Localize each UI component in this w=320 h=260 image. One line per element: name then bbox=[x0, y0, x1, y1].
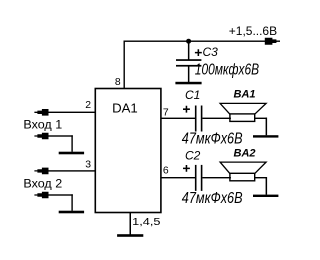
ground C3 bbox=[175, 82, 201, 85]
capacitor C2 right plate bbox=[201, 165, 203, 191]
capacitor C3 bottom plate bbox=[176, 65, 201, 67]
speaker BA1 body bbox=[230, 114, 255, 122]
wire BA1 to ground vertical bbox=[266, 118, 268, 136]
svg-text:100мкфх6В: 100мкфх6В bbox=[195, 62, 259, 79]
wire C3 bottom lead bbox=[188, 67, 190, 83]
svg-text:7: 7 bbox=[163, 107, 169, 118]
input 1 arrow terminal bbox=[34, 109, 48, 116]
input 2 arrow terminal bbox=[34, 168, 48, 175]
wire pin 3 to input 2 bbox=[48, 170, 96, 171]
svg-text:47мкФх6В: 47мкФх6В bbox=[182, 190, 243, 207]
wire pin 8 vertical bbox=[124, 41, 125, 89]
wire input 2 ground vertical bbox=[71, 194, 72, 211]
wire pin 6 to C2 bbox=[161, 177, 195, 178]
ground IC pins 1,4,5 bbox=[117, 234, 143, 237]
svg-text:BA1: BA1 bbox=[234, 89, 256, 101]
wire pin 2 to input 1 bbox=[48, 112, 96, 113]
wire input 1 ground horizontal bbox=[48, 135, 73, 136]
svg-text:DA1: DA1 bbox=[112, 101, 138, 116]
svg-text:6: 6 bbox=[163, 166, 169, 177]
wire input 1 ground vertical bbox=[71, 135, 72, 152]
svg-text:8: 8 bbox=[115, 77, 121, 88]
op-amp IC DA1 body bbox=[95, 89, 161, 213]
speaker BA1 cone bbox=[220, 103, 266, 114]
ground BA1 bbox=[253, 135, 278, 137]
svg-text:3: 3 bbox=[85, 159, 91, 170]
wire pin 7 to C1 bbox=[161, 118, 195, 119]
wire pins 1,4,5 to ground bbox=[130, 213, 132, 236]
svg-text:C2: C2 bbox=[185, 149, 201, 163]
wire power rail horizontal bbox=[124, 41, 278, 42]
wire BA2 to ground vertical bbox=[266, 177, 268, 195]
wire BA1 to ground horizontal bbox=[255, 118, 267, 119]
wire input 2 ground horizontal bbox=[48, 194, 73, 195]
capacitor C1 right plate bbox=[201, 106, 203, 132]
svg-text:2: 2 bbox=[85, 100, 91, 111]
ground input 2 bbox=[59, 211, 84, 214]
wire C2 to BA2 bbox=[202, 177, 231, 178]
capacitor C1 plus sign bbox=[183, 106, 190, 113]
input 1 ground arrow terminal bbox=[34, 133, 48, 140]
wire C3 top lead bbox=[188, 41, 190, 60]
capacitor C2 left plate bbox=[195, 165, 197, 191]
ground BA2 bbox=[253, 195, 278, 197]
capacitor C1 left plate bbox=[195, 106, 197, 132]
ground input 1 bbox=[59, 152, 84, 155]
svg-text:BA2: BA2 bbox=[234, 148, 256, 160]
node junction dot bbox=[186, 39, 191, 44]
input 2 ground arrow terminal bbox=[34, 192, 48, 199]
power arrow terminal bbox=[265, 38, 280, 45]
capacitor C3 plus sign bbox=[195, 49, 202, 56]
capacitor C3 top plate bbox=[176, 59, 201, 61]
svg-text:1,4,5: 1,4,5 bbox=[132, 217, 161, 228]
svg-text:+1,5...6В: +1,5...6В bbox=[229, 24, 277, 38]
speaker BA2 body bbox=[230, 173, 255, 181]
svg-text:Вход 2: Вход 2 bbox=[23, 177, 62, 191]
svg-text:C1: C1 bbox=[185, 88, 200, 102]
wire C1 to BA1 bbox=[202, 118, 231, 119]
svg-text:C3: C3 bbox=[203, 45, 219, 59]
svg-text:Вход 1: Вход 1 bbox=[23, 117, 62, 131]
capacitor C2 plus sign bbox=[183, 165, 190, 172]
wire BA2 to ground horizontal bbox=[255, 177, 267, 178]
svg-text:47мкФх6В: 47мкФх6В bbox=[182, 131, 243, 148]
speaker BA2 cone bbox=[220, 162, 266, 174]
